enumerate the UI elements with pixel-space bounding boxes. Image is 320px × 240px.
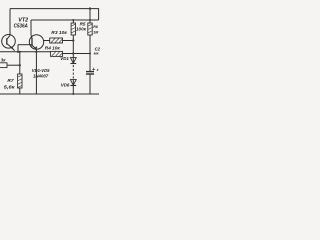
svg-text:R4 10к: R4 10к <box>45 45 61 50</box>
svg-text:С536А: С536А <box>14 24 28 30</box>
wire R7 bottom <box>19 88 21 94</box>
node R4 / cap column <box>89 53 91 55</box>
resistor R3 <box>44 38 74 43</box>
resistor R6 <box>88 9 92 72</box>
wire right bridge <box>98 9 100 20</box>
wire VT2 emitter drop <box>35 49 37 94</box>
wire output line <box>0 51 51 53</box>
node R7 column top <box>19 51 21 53</box>
node VT2 emitter <box>35 51 37 53</box>
resistor R4 <box>51 51 90 56</box>
svg-text:R7: R7 <box>7 78 13 84</box>
diode VD1 <box>70 58 76 64</box>
wire VT2 collector drop <box>30 20 32 35</box>
node rail2 / R5 <box>72 19 74 21</box>
transistor VT1 <box>2 35 16 51</box>
wire dashed (VD2-VD5 omitted) <box>72 65 74 79</box>
svg-text:VD1-VD5: VD1-VD5 <box>32 68 50 73</box>
svg-text:х: х <box>96 68 99 72</box>
svg-text:VT2: VT2 <box>18 17 28 23</box>
wire R7 column top <box>19 52 21 74</box>
node R8 / R7 column <box>19 64 21 66</box>
wire bottom rail <box>0 93 99 95</box>
wire R8 to R7 column <box>7 64 20 66</box>
svg-text:5,6к: 5,6к <box>4 85 15 91</box>
wire VD6 to rail <box>72 80 74 94</box>
node R4 / VD column <box>72 52 74 54</box>
transistor VT2 <box>29 35 43 50</box>
node top rail / R6 <box>89 7 91 9</box>
svg-text:R3 10к: R3 10к <box>51 30 67 35</box>
wire VT1 collector drop <box>9 9 11 36</box>
node rail2 / R6 column <box>89 19 91 21</box>
svg-text:3к: 3к <box>1 58 6 63</box>
diode VD6 <box>70 80 76 86</box>
resistor R8 (left edge, cut) <box>0 63 7 68</box>
wire base riser <box>17 45 19 52</box>
resistor R7 <box>18 74 22 88</box>
node base riser <box>17 51 19 53</box>
svg-text:VD1: VD1 <box>60 56 69 61</box>
node VD6 / bottom rail <box>72 93 74 95</box>
resistor R5 <box>71 20 75 64</box>
svg-text:100к: 100к <box>76 26 87 31</box>
wire VT2 base <box>18 44 32 46</box>
capacitor C2 <box>86 72 94 94</box>
wire top rail <box>10 8 99 10</box>
svg-text:1N4007: 1N4007 <box>33 73 49 78</box>
wire second rail <box>31 19 99 21</box>
node R3 / R5 <box>72 39 74 41</box>
svg-text:VD6: VD6 <box>61 83 70 88</box>
